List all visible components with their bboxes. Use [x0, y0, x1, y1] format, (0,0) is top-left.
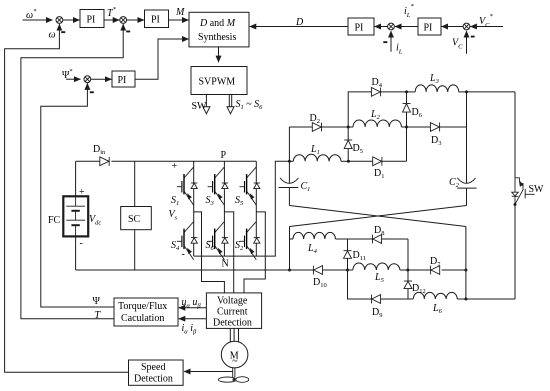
wire SW gate output arrow	[205, 95, 207, 107]
diode D8	[348, 238, 409, 240]
inductor L4	[290, 238, 294, 240]
diode D11	[344, 251, 352, 259]
svg-text:SW: SW	[529, 184, 545, 195]
diode D4	[371, 88, 380, 97]
wire VC feedback stub	[466, 31, 468, 54]
wire L3 to SW	[467, 91, 516, 93]
inductor L1	[289, 160, 293, 162]
svg-text:-: -	[182, 249, 185, 260]
wire flux psi* input	[66, 78, 81, 80]
node input junction dot	[288, 160, 291, 163]
wire PI5 output D to synthesis	[250, 26, 348, 28]
svg-text:Detection: Detection	[134, 374, 173, 385]
node current summing junction	[388, 23, 395, 30]
svg-text:Caculation: Caculation	[121, 313, 164, 324]
wire SW branch	[514, 92, 516, 299]
wire upper converter input riser	[288, 127, 290, 161]
node L6 end junction dot	[464, 298, 467, 301]
wire D11 riser	[347, 239, 349, 270]
label minus at junction4	[471, 36, 475, 38]
node bus-D11 junction dot	[346, 269, 349, 272]
motor M	[221, 341, 248, 368]
wire junction5 to PI5	[375, 26, 388, 28]
svg-text:PI: PI	[424, 23, 433, 34]
wire D5 riser	[347, 127, 349, 161]
block voltage current detection	[206, 293, 261, 329]
block PI4 voltage controller	[418, 18, 441, 35]
diode D7	[431, 266, 440, 275]
svg-text:Current: Current	[217, 307, 248, 318]
wire SC top lead	[134, 161, 136, 206]
diode D5	[344, 140, 352, 149]
wire junction2 to PI2	[127, 19, 144, 21]
node speed summing junction	[56, 17, 63, 24]
transistor S5	[239, 167, 259, 205]
svg-text:-: -	[80, 238, 83, 249]
wire N rail	[194, 161, 290, 256]
wire D9 line	[348, 270, 409, 299]
wire P rail from fuel cell to inverter	[76, 160, 257, 162]
svg-text:Synthesis: Synthesis	[198, 32, 236, 43]
block torque flux calculation	[114, 298, 178, 326]
block PI1 speed controller	[80, 10, 104, 28]
diode D12	[404, 281, 412, 289]
wire phase B to detection	[224, 212, 233, 293]
wire FC negative lead	[75, 236, 77, 270]
block PI5 current controller	[348, 18, 374, 35]
label minus at junction1	[61, 31, 65, 33]
transistor SW output switch	[512, 178, 535, 206]
svg-text:PI: PI	[151, 15, 160, 26]
svg-text:Ψ: Ψ	[93, 296, 101, 307]
svg-text:PI: PI	[355, 23, 364, 34]
svg-text:D and M: D and M	[199, 18, 236, 29]
wire i alpha beta to torque flux	[179, 318, 207, 320]
wire u alpha beta to torque flux	[179, 307, 207, 309]
wire PI3 output to D and M synthesis	[135, 39, 189, 79]
wire detection to motor 3phase	[230, 328, 238, 341]
wire VC* input	[470, 26, 503, 28]
svg-text:+: +	[172, 161, 178, 172]
wire phase A to detection	[194, 212, 225, 293]
svg-text:D: D	[295, 17, 304, 28]
wire PI1 to junction2	[104, 19, 119, 21]
wire phase C to detection	[244, 212, 265, 293]
wire D6 riser	[406, 92, 408, 161]
capacitor C1	[288, 161, 290, 183]
wire lower right riser	[465, 227, 467, 300]
wire crossing C1 to lower right	[289, 206, 466, 227]
svg-text:S1 ~ S6: S1 ~ S6	[236, 99, 264, 111]
wire negative bus to lower converter	[76, 269, 466, 271]
wire S1-S6 gate outputs double arrow	[229, 95, 231, 107]
node D4-L3 junction dot	[405, 90, 408, 93]
battery FC fuel cell stack	[63, 196, 88, 236]
wire SC bottom lead	[134, 230, 136, 270]
wire inverter leg 3	[255, 161, 257, 256]
label minus at junction3	[90, 91, 94, 93]
inductor L3	[407, 91, 416, 93]
diode D6	[403, 104, 411, 113]
inductor L5	[353, 263, 400, 270]
svg-text:ω: ω	[49, 30, 56, 41]
svg-text:SVPWM: SVPWM	[199, 77, 236, 88]
svg-text:Detection: Detection	[213, 318, 252, 329]
inductor L2	[348, 126, 353, 128]
wire junction4 to PI4	[442, 26, 464, 28]
block speed detection	[129, 360, 184, 385]
diode Din input diode	[100, 157, 109, 166]
wire inverter leg 1	[193, 161, 195, 256]
block PI2 torque controller	[145, 10, 169, 28]
wire iL feedback stub	[390, 31, 392, 52]
svg-text:Torque/Flux: Torque/Flux	[118, 301, 167, 312]
svg-text:P: P	[221, 150, 227, 161]
capacitor C2	[457, 178, 475, 183]
wire crossing C2 to lower left	[290, 206, 467, 227]
node L5-D7 junction dot	[406, 269, 409, 272]
wire lower mid to D12 riser	[407, 239, 409, 299]
wire junction1 to PI1	[63, 19, 80, 21]
transistor S1	[177, 167, 197, 205]
diode D1	[348, 160, 406, 162]
wire flux feedback bus	[41, 83, 114, 307]
wire speed sensor line	[184, 371, 233, 373]
wire lower converter left riser	[289, 227, 291, 271]
svg-text:PI: PI	[118, 75, 127, 86]
wire inverter leg 2	[223, 161, 225, 256]
svg-text:PI: PI	[87, 15, 96, 26]
wire PI4 to junction5 iL*	[395, 26, 418, 28]
node L1-D5 junction dot	[347, 160, 350, 163]
wire D4 top line	[348, 92, 406, 127]
wire torque feedback bus	[21, 24, 123, 319]
svg-text:~: ~	[232, 356, 238, 367]
transistor S2	[239, 222, 259, 260]
inductor L6	[408, 298, 413, 300]
svg-text:FC: FC	[48, 215, 61, 226]
diode D10	[313, 266, 322, 275]
node L2-D6 junction dot	[405, 126, 408, 129]
wire speed feedback bus	[5, 24, 129, 372]
svg-text:SC: SC	[128, 214, 141, 225]
diode D3	[407, 126, 467, 128]
wire L6 to SW bottom	[466, 298, 515, 300]
wire C2 riser	[466, 92, 468, 183]
transistor S3	[208, 167, 228, 205]
node D2-L2 junction dot	[347, 126, 350, 129]
propeller	[218, 377, 248, 383]
node L3 output junction dot	[465, 90, 468, 93]
node D7 end junction dot	[464, 269, 467, 272]
svg-text:N: N	[222, 259, 229, 270]
label minus at junction2	[126, 31, 130, 33]
node flux summing junction	[84, 76, 91, 83]
diode D2	[312, 123, 321, 132]
node voltage summing junction	[463, 23, 470, 30]
node torque summing junction	[120, 17, 127, 24]
wire omega* input	[23, 19, 53, 21]
wire PI2 to D and M synthesis, label M	[169, 19, 189, 21]
block D and M Synthesis U1	[189, 12, 249, 47]
transistor S6	[208, 222, 228, 260]
wire D2 line	[289, 126, 348, 128]
svg-text:M: M	[175, 7, 185, 18]
svg-text:Voltage: Voltage	[217, 296, 248, 307]
svg-text:+: +	[79, 187, 85, 198]
wire motor shaft	[233, 368, 235, 378]
block PI3 flux controller	[112, 71, 135, 87]
transistor S4	[177, 222, 197, 260]
diode D9	[372, 295, 381, 304]
node bus crossing junction dot	[288, 269, 291, 272]
svg-text:Speed: Speed	[141, 362, 165, 373]
block SC supercapacitor	[121, 207, 152, 230]
wire junction3 to PI3	[91, 78, 112, 80]
svg-text:SW: SW	[192, 101, 208, 112]
block SVPWM modulator	[191, 67, 247, 95]
wire FC positive lead	[75, 161, 77, 196]
label minus at junction5	[383, 41, 387, 43]
wire D and M synthesis to SVPWM	[218, 47, 220, 62]
